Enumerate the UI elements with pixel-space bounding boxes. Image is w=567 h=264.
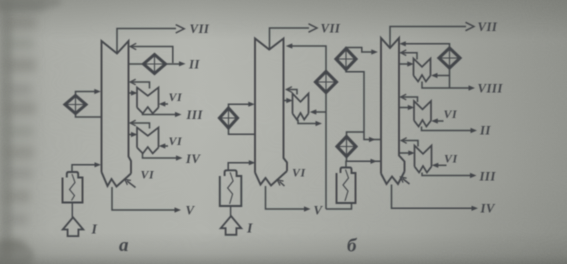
wire steam VI to S2 xyxy=(164,145,169,147)
side stripper S2 (b2) xyxy=(414,101,431,127)
wire AC4 to column top (b2) xyxy=(346,48,374,53)
column K2 (scheme b main column) xyxy=(381,38,405,184)
wire AC4 down then into column (b2) xyxy=(346,70,381,140)
wire AC5 top junction xyxy=(347,132,365,137)
svg-text:VII: VII xyxy=(190,22,210,36)
svg-text:VI: VI xyxy=(444,152,458,166)
wire product II (b2) xyxy=(422,127,473,131)
svg-text:II: II xyxy=(479,124,491,138)
wire S2 vapor return (b2) xyxy=(403,97,418,102)
steam VI into column bottom (b1) xyxy=(280,182,285,187)
furnace F1 (b1) xyxy=(220,170,242,206)
svg-text:VI: VI xyxy=(169,134,183,148)
svg-text:V: V xyxy=(314,204,324,218)
wire steam VI to S1 xyxy=(164,103,169,105)
svg-text:VI: VI xyxy=(141,168,155,182)
steam VI into column bottom (a) xyxy=(127,181,136,188)
wire product III (b2) xyxy=(422,173,472,176)
svg-text:I: I xyxy=(246,222,253,237)
wire condensate down (b2) xyxy=(449,68,451,88)
wire column to AC1 xyxy=(76,114,102,118)
wire column draw to S1 (b2) xyxy=(399,63,409,65)
wire S3 vapor return (b2) xyxy=(403,141,418,147)
svg-text:а: а xyxy=(119,235,129,256)
wire bottoms IV (b2) xyxy=(392,185,474,209)
svg-text:VI: VI xyxy=(169,90,183,104)
wire column draw to S2 xyxy=(129,134,134,136)
side stripper S3 (b2) xyxy=(415,146,432,173)
wire furnace to column (a) xyxy=(72,165,96,172)
side stripper S2 (a) xyxy=(137,128,159,154)
wire column draw to S1 (b1) xyxy=(284,100,289,102)
air cooler AC4 (b2 upper-left) xyxy=(336,49,356,70)
svg-text:IV: IV xyxy=(480,202,496,216)
wire condensate down (b1) xyxy=(325,93,327,210)
wire overhead VII (b2) xyxy=(390,27,466,48)
wire into stripper right (b1) xyxy=(314,111,327,113)
side stripper S1 (a) xyxy=(137,88,159,114)
steam into column bottom (b2) xyxy=(403,179,410,185)
feed block arrow I (a) xyxy=(71,203,73,217)
wire reflux return (b1) xyxy=(290,46,326,72)
column K1 (scheme a main column) xyxy=(102,41,132,187)
wire column to AC2 (b1) xyxy=(229,128,256,134)
svg-text:IV: IV xyxy=(185,152,201,166)
wire furnace F2 to column (b2) xyxy=(346,161,381,167)
wire AC5 bottom to furnace line xyxy=(346,157,348,162)
wire into stripper S1 right (b2) xyxy=(435,75,450,77)
side stripper S1 (b2) xyxy=(414,59,431,82)
wire S1 vapor return (b1) xyxy=(288,90,297,95)
wire S2 vapor return xyxy=(132,123,150,129)
wire reflux return (a) xyxy=(132,47,173,64)
air cooler AC5 (b2 lower-left) xyxy=(337,137,356,157)
wire bottoms V (a) xyxy=(112,187,176,210)
air cooler AC2 left (b1) xyxy=(220,108,238,128)
wire bottom transfer to furnace F2 xyxy=(326,203,352,209)
wire S1 bottom to line (b1) xyxy=(298,120,318,124)
wire S1 vapor return (b2) xyxy=(403,53,418,60)
wire distillate II xyxy=(166,63,180,65)
air condenser AC1 (b1) xyxy=(316,72,337,93)
svg-text:VIII: VIII xyxy=(478,82,504,96)
svg-text:VI: VI xyxy=(444,107,458,121)
wire product IV xyxy=(143,154,179,159)
svg-text:VII: VII xyxy=(321,22,341,36)
left margin bleed-through text smudges xyxy=(0,0,12,264)
arrow VII (a) xyxy=(176,25,185,33)
svg-text:VI: VI xyxy=(292,166,306,180)
wire column to condenser (a) xyxy=(129,63,144,65)
wire overhead VII (a) xyxy=(117,29,176,54)
air condenser AC3 (b2 top) xyxy=(439,48,460,68)
svg-text:V: V xyxy=(186,204,196,218)
furnace F2 (b2) xyxy=(337,168,356,204)
air cooler AC1 (a, circulating reflux) xyxy=(65,96,86,114)
wire product III xyxy=(143,114,178,115)
svg-text:I: I xyxy=(91,223,98,238)
wire bottoms V (b1) xyxy=(266,186,307,209)
feed block arrow I (b1) xyxy=(230,206,232,216)
corner shadows xyxy=(0,240,34,264)
wire S1 vapor return xyxy=(132,82,150,89)
svg-text:II: II xyxy=(188,58,200,72)
column K1 (scheme b first column) xyxy=(255,39,287,186)
wire furnace to column (b1) xyxy=(228,163,251,171)
wire column draw to S1 xyxy=(129,92,134,94)
furnace F1 (a) xyxy=(63,172,83,203)
wire reflux return (b2) xyxy=(403,44,450,48)
svg-text:III: III xyxy=(186,108,204,122)
svg-text:б: б xyxy=(347,236,358,257)
wire product VIII xyxy=(422,82,470,89)
wire AC1 to column top xyxy=(76,92,97,96)
svg-text:VII: VII xyxy=(478,20,498,34)
wire steam VI to S3 (b2) xyxy=(436,164,447,166)
air condenser AC2 (a, distillate) xyxy=(144,55,166,74)
wire column draw to S3 (b2) xyxy=(399,152,410,154)
wire overhead VII (b1) xyxy=(270,28,310,49)
wire steam VI to S2 (b2) xyxy=(436,120,444,122)
svg-text:III: III xyxy=(479,170,497,184)
wire AC2 to column (b1) xyxy=(229,104,251,108)
wire column draw to S2 (b2) xyxy=(399,107,410,109)
side stripper S1 (b1) xyxy=(293,94,309,120)
